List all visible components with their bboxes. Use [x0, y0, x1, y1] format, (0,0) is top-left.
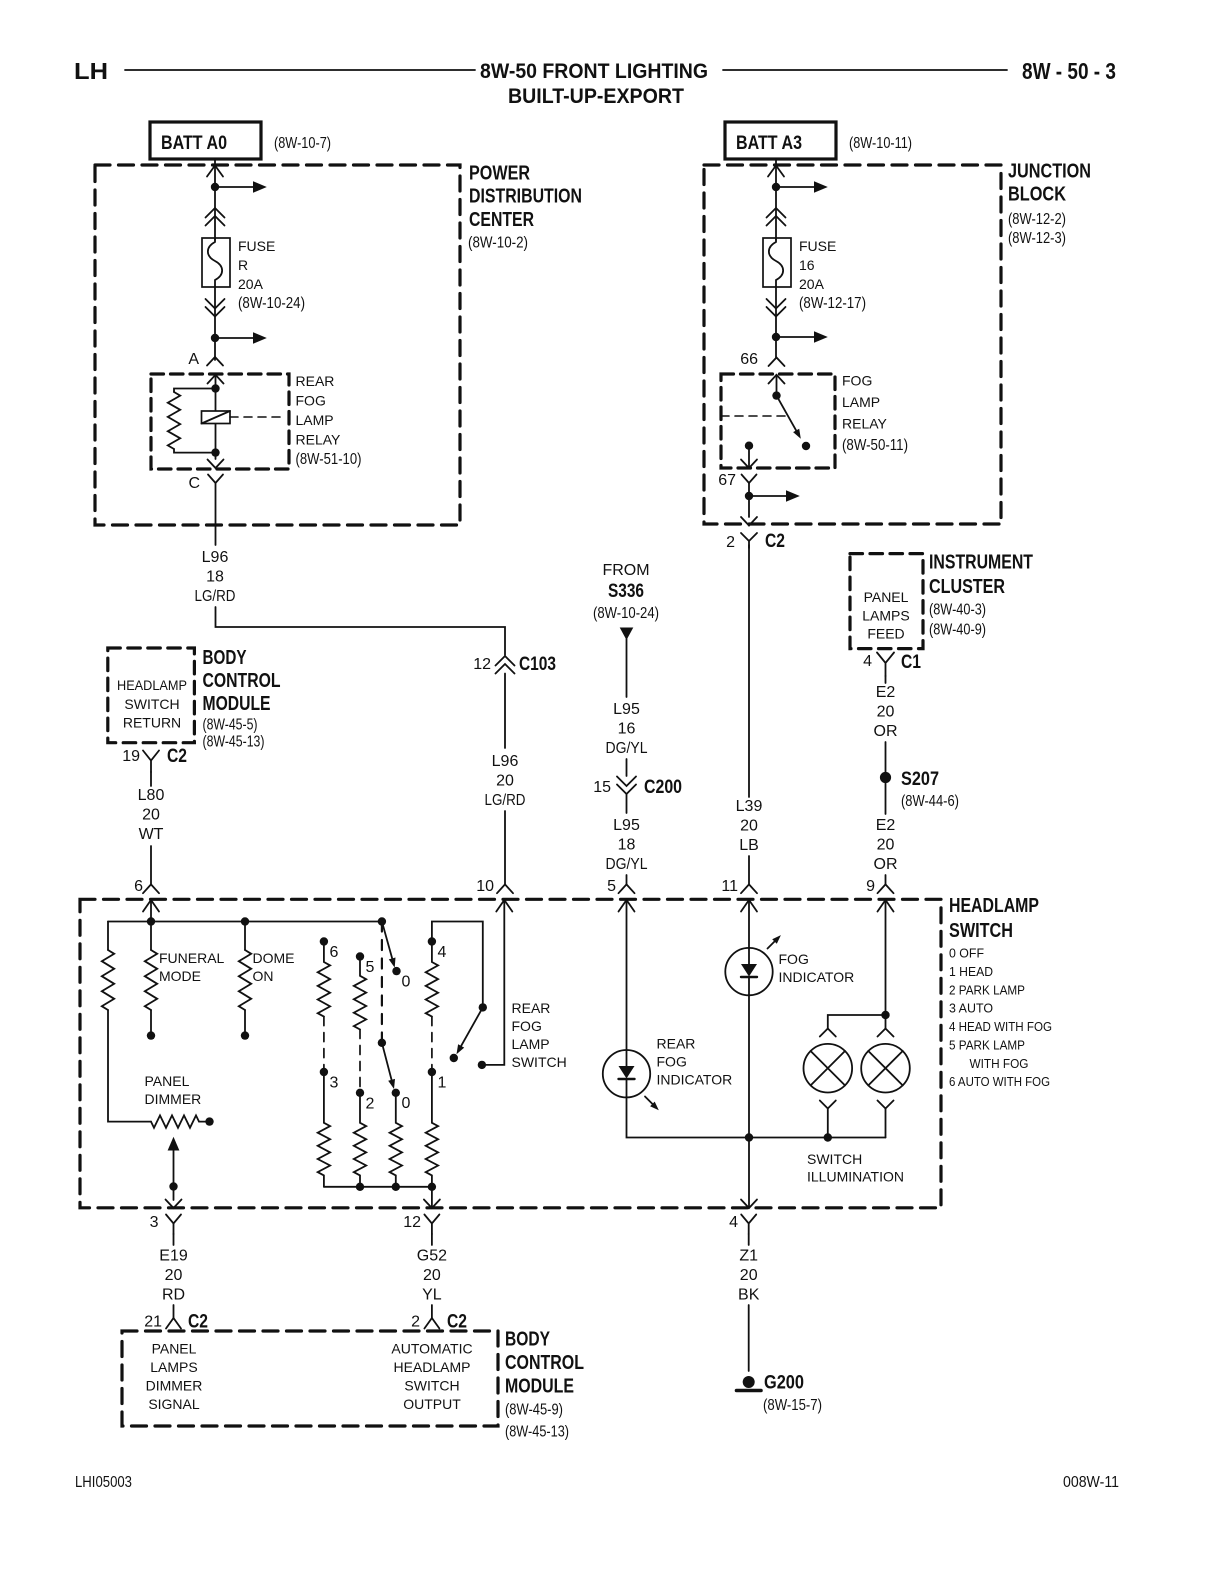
- LED rear fog indicator: [603, 1050, 650, 1097]
- svg-text:REAR: REAR: [512, 1000, 551, 1016]
- svg-text:RELAY: RELAY: [842, 416, 888, 432]
- svg-text:12: 12: [473, 656, 491, 673]
- branch arrow right: [776, 186, 815, 188]
- wire label L95 18 DG/YL: [606, 817, 648, 873]
- power distribution center label: [468, 163, 582, 252]
- relay switch common wire: [776, 375, 778, 396]
- pin 4 arrowhead inside box: [741, 1200, 757, 1209]
- svg-text:2: 2: [411, 1314, 420, 1331]
- svg-text:L95: L95: [613, 701, 640, 718]
- contact dot 6: [320, 937, 328, 945]
- wire label E19 20 RD: [159, 1248, 188, 1304]
- svg-text:6 AUTO WITH FOG: 6 AUTO WITH FOG: [949, 1074, 1050, 1089]
- svg-text:DG/YL: DG/YL: [606, 856, 648, 873]
- svg-text:BODY: BODY: [505, 1329, 551, 1351]
- contact dot 4: [428, 937, 436, 945]
- svg-text:FOG: FOG: [512, 1018, 542, 1034]
- relay bottom junction dot: [211, 448, 219, 456]
- wire above pin 6 (from L80): [150, 846, 152, 884]
- svg-text:9: 9: [866, 878, 875, 895]
- svg-text:(8W-40-9): (8W-40-9): [929, 622, 986, 639]
- wire to S207: [885, 742, 887, 772]
- wire below C2 19: [150, 772, 152, 786]
- wire to switch pin 10: [504, 811, 506, 884]
- wire below C103: [504, 674, 506, 749]
- left branch wire down: [107, 922, 109, 951]
- svg-text:20A: 20A: [799, 276, 825, 292]
- wire label L96 18 LG/RD: [195, 549, 236, 605]
- svg-text:0: 0: [402, 974, 411, 991]
- wire to switch pin 11: [748, 856, 750, 884]
- svg-text:(8W-10-7): (8W-10-7): [274, 135, 331, 152]
- headlamp switch label and positions: [949, 895, 1052, 1089]
- svg-text:C2: C2: [188, 1312, 208, 1333]
- svg-text:5 PARK LAMP: 5 PARK LAMP: [949, 1037, 1025, 1052]
- S336 feed arrow: [620, 628, 634, 641]
- svg-text:INDICATOR: INDICATOR: [657, 1072, 733, 1088]
- svg-text:WT: WT: [139, 826, 164, 843]
- mechanical dashed link: [381, 922, 383, 1043]
- resistor 5: [354, 957, 366, 1030]
- svg-text:20: 20: [496, 773, 514, 790]
- contact dot 3: [320, 1068, 328, 1076]
- junction block label: [1008, 161, 1091, 248]
- rear fog lamp relay label: [296, 373, 362, 468]
- svg-text:MODULE: MODULE: [203, 693, 271, 715]
- svg-text:(8W-10-2): (8W-10-2): [468, 235, 528, 252]
- svg-text:BLOCK: BLOCK: [1008, 184, 1066, 206]
- svg-text:3 AUTO: 3 AUTO: [949, 1001, 993, 1016]
- contact dot 2: [356, 1089, 364, 1097]
- wire label L39 20 LB: [736, 798, 763, 854]
- svg-text:2: 2: [366, 1095, 375, 1112]
- svg-text:L95: L95: [613, 817, 640, 834]
- svg-text:FUSE: FUSE: [238, 238, 275, 254]
- svg-text:LAMP: LAMP: [842, 394, 880, 410]
- svg-text:WITH FOG: WITH FOG: [970, 1056, 1029, 1071]
- wire pin9 down: [885, 900, 887, 1029]
- svg-text:67: 67: [718, 472, 736, 489]
- svg-text:CENTER: CENTER: [469, 209, 534, 231]
- svg-text:RETURN: RETURN: [123, 715, 181, 731]
- svg-text:OR: OR: [874, 723, 898, 740]
- pin C female chevron: [208, 475, 223, 484]
- svg-text:BK: BK: [738, 1287, 760, 1304]
- svg-text:16: 16: [799, 257, 815, 273]
- svg-text:18: 18: [206, 569, 224, 586]
- svg-text:C200: C200: [644, 777, 682, 798]
- svg-text:FEED: FEED: [867, 626, 904, 642]
- svg-text:HEADLAMP: HEADLAMP: [949, 895, 1039, 917]
- fog indicator label: [779, 951, 855, 985]
- svg-text:MODULE: MODULE: [505, 1375, 574, 1397]
- svg-text:2 PARK LAMP: 2 PARK LAMP: [949, 982, 1025, 997]
- junction dot: [772, 183, 780, 191]
- arrowhead up into BATT A3: [768, 166, 784, 177]
- wire to C2 21: [173, 1305, 175, 1318]
- dome on end dot: [241, 1031, 249, 1039]
- wire from BATT A3 down: [775, 159, 777, 240]
- fog lamp relay box: [721, 374, 835, 468]
- svg-text:20: 20: [740, 1267, 758, 1284]
- dome on label: [253, 950, 295, 984]
- wire to C2 2: [431, 1305, 433, 1318]
- arrowhead down at junction block exit: [741, 517, 757, 526]
- splice S207: [880, 772, 891, 783]
- wire from S336: [626, 639, 628, 697]
- svg-text:LB: LB: [739, 837, 759, 854]
- svg-text:FOG: FOG: [842, 373, 872, 389]
- svg-text:008W-11: 008W-11: [1063, 1474, 1119, 1491]
- connector box BATT A0: [150, 122, 261, 159]
- svg-text:A: A: [188, 351, 199, 368]
- wire below fuse: [775, 287, 777, 358]
- svg-text:L80: L80: [138, 787, 165, 804]
- svg-text:11: 11: [721, 878, 738, 895]
- svg-text:18: 18: [618, 837, 636, 854]
- svg-text:CONTROL: CONTROL: [203, 670, 281, 692]
- svg-text:20: 20: [423, 1267, 441, 1284]
- pin 11 arrowhead inside box: [741, 900, 757, 912]
- resistor 6: [318, 942, 330, 1017]
- svg-text:PANEL: PANEL: [864, 589, 909, 605]
- svg-text:20A: 20A: [238, 276, 264, 292]
- contact dot 0 (lower): [392, 1089, 400, 1097]
- svg-text:DIMMER: DIMMER: [145, 1091, 202, 1107]
- relay output contact dot: [745, 442, 753, 450]
- svg-text:FOG: FOG: [657, 1054, 687, 1070]
- svg-text:C2: C2: [167, 746, 187, 767]
- resistor 1: [426, 1072, 438, 1187]
- fuse 16 labels: [799, 238, 866, 312]
- panel dimmer resistor: [151, 1115, 199, 1127]
- wire label L96 20 LG/RD: [485, 753, 526, 809]
- svg-text:INDICATOR: INDICATOR: [779, 969, 855, 985]
- pin 10 arrowhead inside box: [496, 900, 512, 912]
- svg-text:R: R: [238, 257, 248, 273]
- fog indicator light arrow: [768, 940, 777, 949]
- svg-text:DG/YL: DG/YL: [606, 740, 648, 757]
- relay arrowhead up at box entry: [769, 375, 785, 384]
- wiper junction dot: [169, 1182, 177, 1190]
- header rule left: [125, 69, 475, 71]
- svg-text:8W-50 FRONT LIGHTING: 8W-50 FRONT LIGHTING: [480, 60, 708, 83]
- body control module label (bottom): [505, 1329, 584, 1441]
- svg-text:4 HEAD WITH FOG: 4 HEAD WITH FOG: [949, 1019, 1052, 1034]
- svg-text:FROM: FROM: [602, 562, 649, 579]
- panel lamps dimmer signal label: [146, 1341, 203, 1413]
- svg-text:4: 4: [729, 1214, 738, 1231]
- fog lamp relay label: [842, 373, 908, 455]
- svg-text:L96: L96: [202, 549, 229, 566]
- upper wiper pivot dot: [378, 917, 386, 925]
- instrument cluster label: [929, 552, 1033, 639]
- wire below pin 12: [431, 1234, 433, 1245]
- svg-text:ON: ON: [253, 968, 274, 984]
- svg-text:S336: S336: [608, 581, 644, 602]
- svg-text:MODE: MODE: [159, 968, 201, 984]
- svg-text:LG/RD: LG/RD: [485, 792, 526, 809]
- wire to switch pin 5: [626, 875, 628, 884]
- svg-text:4: 4: [863, 653, 872, 670]
- svg-text:BATT A3: BATT A3: [736, 133, 802, 154]
- header rule right: [723, 69, 1007, 71]
- svg-text:E2: E2: [876, 817, 896, 834]
- panel dimmer label: [145, 1073, 202, 1107]
- svg-text:DISTRIBUTION: DISTRIBUTION: [469, 186, 582, 208]
- junction dot dome/bus: [241, 917, 249, 925]
- svg-text:(8W-12-3): (8W-12-3): [1008, 230, 1066, 247]
- pin 12 arrowhead inside box: [424, 1200, 440, 1209]
- svg-text:C2: C2: [765, 531, 785, 552]
- svg-text:21: 21: [144, 1314, 162, 1331]
- relay switch arm with arrowhead: [777, 396, 799, 434]
- pin A chevron: [207, 357, 223, 366]
- pin 3 arrowhead inside box: [166, 1200, 182, 1209]
- svg-text:20: 20: [165, 1267, 183, 1284]
- wire jog right to C103: [216, 607, 506, 655]
- rear fog switch output contact dot: [478, 1061, 486, 1069]
- junction dot lamps: [881, 1011, 889, 1019]
- pin 66 chevron: [769, 358, 785, 367]
- wire below pin 4: [748, 1234, 750, 1245]
- body control module box (bottom): [122, 1331, 498, 1426]
- wire label G52 20 YL: [417, 1248, 447, 1304]
- rear fog lamp switch arm: [460, 1007, 483, 1048]
- wire label E2 20 OR: [874, 684, 898, 740]
- svg-text:DOME: DOME: [253, 950, 295, 966]
- lower wiper arm: [382, 1043, 392, 1080]
- rear fog lamp switch pivot dot: [479, 1003, 487, 1011]
- switch illumination label: [807, 1151, 904, 1185]
- svg-text:6: 6: [330, 944, 339, 961]
- svg-text:DIMMER: DIMMER: [146, 1378, 203, 1394]
- panel dimmer wiper arrow: [168, 1137, 180, 1151]
- inline connector double chevron up: [206, 208, 225, 226]
- svg-text:(8W-40-3): (8W-40-3): [929, 602, 986, 619]
- resistor 2: [354, 1093, 366, 1187]
- svg-text:LAMP: LAMP: [512, 1036, 550, 1052]
- svg-text:SWITCH: SWITCH: [949, 920, 1013, 942]
- svg-text:15: 15: [593, 779, 611, 796]
- rear fog lamp switch label: [512, 1000, 567, 1070]
- wire label L95 16 DG/YL: [606, 701, 648, 757]
- svg-text:2: 2: [726, 534, 735, 551]
- svg-text:5: 5: [607, 878, 616, 895]
- power distribution center box: [95, 165, 460, 525]
- pin 6 arrowhead inside box: [143, 900, 159, 912]
- relay top junction dot: [211, 384, 219, 392]
- svg-text:FOG: FOG: [296, 393, 326, 409]
- panel dimmer end dot: [205, 1117, 213, 1125]
- wire below S207: [885, 783, 887, 814]
- wire rear fog indicator to bottom bus: [627, 1097, 886, 1137]
- instrument cluster box: [850, 554, 923, 649]
- junction dot: [772, 333, 780, 341]
- inline connector double chevron down: [767, 299, 786, 317]
- relay arrowhead down at box exit: [208, 460, 224, 469]
- pin 5 arrowhead inside box: [619, 900, 635, 912]
- svg-text:16: 16: [618, 721, 636, 738]
- svg-text:(8W-12-17): (8W-12-17): [799, 295, 866, 312]
- wire below 67: [748, 483, 750, 517]
- wire fog indicator down to pin 4: [748, 995, 750, 1208]
- junction dot pin6/bus: [147, 917, 155, 925]
- svg-text:(8W-10-24): (8W-10-24): [238, 295, 305, 312]
- svg-text:5: 5: [366, 959, 375, 976]
- svg-text:OR: OR: [874, 856, 898, 873]
- svg-text:6: 6: [134, 878, 143, 895]
- wire to pin 12: [431, 1187, 433, 1208]
- wire label Z1 20 BK: [738, 1248, 760, 1304]
- dashed wire 6-3: [323, 1017, 325, 1068]
- svg-text:CLUSTER: CLUSTER: [929, 576, 1005, 598]
- relay coil box: [202, 411, 231, 424]
- svg-text:(8W-45-9): (8W-45-9): [505, 1402, 563, 1419]
- headlamp switch box: [80, 899, 941, 1208]
- svg-text:SIGNAL: SIGNAL: [148, 1396, 200, 1412]
- svg-text:(8W-45-13): (8W-45-13): [203, 734, 265, 751]
- wire below C1: [885, 676, 887, 683]
- wire pin11 to fog indicator: [748, 900, 750, 948]
- panel lamps feed label: [862, 589, 909, 642]
- svg-text:(8W-44-6): (8W-44-6): [901, 793, 959, 810]
- svg-text:LAMPS: LAMPS: [150, 1359, 197, 1375]
- svg-text:ILLUMINATION: ILLUMINATION: [807, 1169, 904, 1185]
- dashed wire 4-1: [431, 1017, 433, 1068]
- relay mechanical dashed line: [721, 415, 786, 417]
- relay arrowhead up at box entry: [208, 375, 224, 384]
- svg-text:20: 20: [740, 818, 758, 835]
- svg-text:(8W-50-11): (8W-50-11): [842, 437, 908, 454]
- svg-text:PANEL: PANEL: [145, 1073, 190, 1089]
- fuse R labels: [238, 238, 305, 312]
- relay contact dot: [802, 442, 810, 450]
- contact dot 5: [356, 952, 364, 960]
- svg-text:RD: RD: [162, 1287, 185, 1304]
- junction dot on bottom bus: [745, 1133, 753, 1141]
- svg-text:SWITCH: SWITCH: [807, 1151, 862, 1167]
- lamp left (switch illumination): [804, 1044, 853, 1093]
- svg-text:(8W-12-2): (8W-12-2): [1008, 211, 1066, 228]
- svg-text:1 HEAD: 1 HEAD: [949, 964, 993, 979]
- body control module label (top): [203, 647, 281, 751]
- wire label E2 20 OR: [874, 817, 898, 873]
- junction dot: [211, 183, 219, 191]
- LED fog indicator: [725, 948, 772, 995]
- svg-text:LAMP: LAMP: [296, 412, 334, 428]
- svg-text:C103: C103: [519, 654, 556, 675]
- pin 67 female chevron: [742, 475, 757, 484]
- branch arrow right: [749, 495, 787, 497]
- svg-text:12: 12: [403, 1214, 421, 1231]
- svg-text:OUTPUT: OUTPUT: [403, 1396, 461, 1412]
- wire to switch pin 9: [885, 875, 887, 884]
- junction block box: [704, 165, 1001, 524]
- svg-text:0: 0: [402, 1095, 411, 1112]
- svg-text:3: 3: [330, 1075, 339, 1092]
- resistor 4: [426, 942, 438, 1017]
- svg-text:4: 4: [438, 944, 447, 961]
- dome on resistor: [244, 922, 246, 951]
- svg-text:BODY: BODY: [203, 647, 247, 669]
- wire to C200: [626, 759, 628, 776]
- svg-text:BUILT-UP-EXPORT: BUILT-UP-EXPORT: [508, 85, 684, 108]
- ladder bottom bus: [324, 1186, 432, 1188]
- branch arrow right: [776, 336, 815, 338]
- svg-text:(8W-10-24): (8W-10-24): [593, 605, 659, 622]
- svg-text:L39: L39: [736, 798, 763, 815]
- svg-text:LH: LH: [74, 58, 108, 84]
- node FROM S336: [593, 562, 659, 622]
- svg-text:REAR: REAR: [296, 373, 335, 389]
- svg-text:Z1: Z1: [739, 1248, 758, 1265]
- wire below fuse: [214, 287, 216, 360]
- svg-text:INSTRUMENT: INSTRUMENT: [929, 552, 1033, 574]
- svg-text:(8W-51-10): (8W-51-10): [296, 451, 362, 468]
- resistor 3: [318, 1072, 330, 1187]
- branch arrow right: [215, 337, 254, 339]
- svg-text:C: C: [188, 475, 200, 492]
- relay output wire: [748, 446, 750, 468]
- svg-text:(8W-45-5): (8W-45-5): [203, 717, 258, 734]
- svg-text:1: 1: [438, 1075, 447, 1092]
- wire below pin 3: [173, 1234, 175, 1245]
- svg-text:HEADLAMP: HEADLAMP: [393, 1359, 470, 1375]
- inline connector double chevron down: [206, 299, 225, 317]
- svg-text:L96: L96: [492, 753, 519, 770]
- svg-text:RELAY: RELAY: [296, 432, 342, 448]
- svg-text:JUNCTION: JUNCTION: [1008, 161, 1091, 183]
- svg-text:C1: C1: [901, 652, 921, 673]
- lamp right (switch illumination): [861, 1044, 910, 1093]
- svg-text:YL: YL: [422, 1287, 442, 1304]
- svg-text:20: 20: [877, 837, 895, 854]
- interior bus wire: [108, 921, 382, 923]
- rear fog indicator light arrow: [645, 1097, 654, 1106]
- rear fog switch open contact dot: [450, 1054, 458, 1062]
- svg-text:FOG: FOG: [779, 951, 809, 967]
- svg-text:LAMPS: LAMPS: [862, 608, 909, 624]
- svg-text:LHI05003: LHI05003: [75, 1474, 132, 1491]
- svg-text:BATT A0: BATT A0: [161, 133, 227, 154]
- svg-text:19: 19: [122, 748, 140, 765]
- connector box BATT A3: [725, 122, 836, 159]
- rear fog indicator label: [657, 1036, 733, 1088]
- svg-text:SWITCH: SWITCH: [512, 1054, 567, 1070]
- svg-text:20: 20: [877, 704, 895, 721]
- branch arrow right: [215, 186, 254, 188]
- svg-text:FUNERAL: FUNERAL: [159, 950, 225, 966]
- wire label L80 20 WT: [138, 787, 165, 843]
- svg-text:PANEL: PANEL: [152, 1341, 197, 1357]
- svg-text:SWITCH: SWITCH: [404, 1378, 459, 1394]
- left lamp connector chevrons: [820, 1029, 836, 1037]
- relay switch pivot dot: [772, 391, 780, 399]
- relay coil dashed link: [230, 416, 284, 418]
- relay arrowhead down at box exit: [741, 460, 757, 469]
- funeral mode label: [159, 950, 225, 984]
- rear fog lamp relay box: [151, 374, 289, 469]
- funeral mode end dot: [147, 1031, 155, 1039]
- svg-text:G200: G200: [764, 1373, 804, 1394]
- svg-text:3: 3: [150, 1214, 159, 1231]
- right lamp connector chevrons: [878, 1029, 894, 1037]
- resistor 0: [390, 1093, 402, 1187]
- svg-text:66: 66: [740, 351, 758, 368]
- inline connector double chevron up: [767, 208, 786, 226]
- wire pin5 to rear fog indicator: [626, 900, 628, 1050]
